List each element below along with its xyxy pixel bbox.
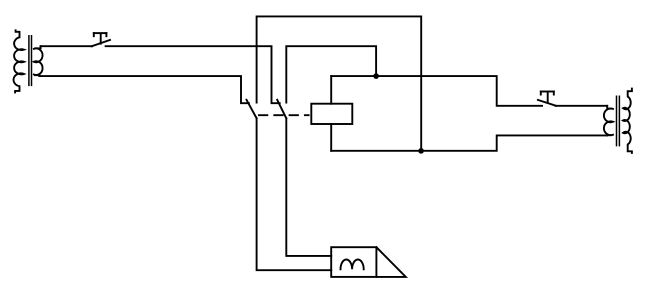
wire contact K1.2 right stationary to top bus (286, 46, 376, 102)
wire top bus to S2 (331, 76, 542, 106)
transformer T2 secondary winding (623, 89, 632, 153)
pushbutton S1 (92, 33, 110, 46)
relay coil K1 (311, 104, 352, 124)
wire T1 top to S1 (41, 45, 92, 47)
horn H1 cone triangle (376, 247, 405, 277)
wire bottom bus to T2 (331, 135, 607, 150)
relay contact K1.1 blade (247, 100, 257, 119)
junction dot top bus (373, 73, 379, 79)
wire outer loop (top rail) (257, 16, 422, 151)
horn H1 AC symbol (341, 260, 364, 270)
wire contact K1.1 bottom to horn (257, 118, 332, 270)
wire T1 bottom to contact K1.1 left stationary (39, 76, 249, 103)
horn H1 body (331, 247, 376, 277)
pushbutton S2 (538, 92, 556, 106)
transformer T1 primary winding (14, 30, 24, 92)
wire S1 to contact K1.2 left stationary (106, 46, 280, 103)
wire coil K1 top (330, 76, 332, 104)
transformer T1 core (29, 36, 32, 86)
wire contact K1.2 bottom to horn (286, 118, 331, 256)
transformer T2 core (617, 96, 620, 145)
transformer T2 primary winding (604, 106, 613, 136)
wire coil K1 bottom (330, 124, 332, 151)
mechanical linkage dashed line (259, 114, 309, 116)
junction dot bottom bus (418, 148, 424, 154)
transformer T1 secondary winding (34, 46, 43, 76)
relay contact K1.2 blade (277, 100, 286, 119)
wire S2 to T2 (555, 105, 607, 107)
